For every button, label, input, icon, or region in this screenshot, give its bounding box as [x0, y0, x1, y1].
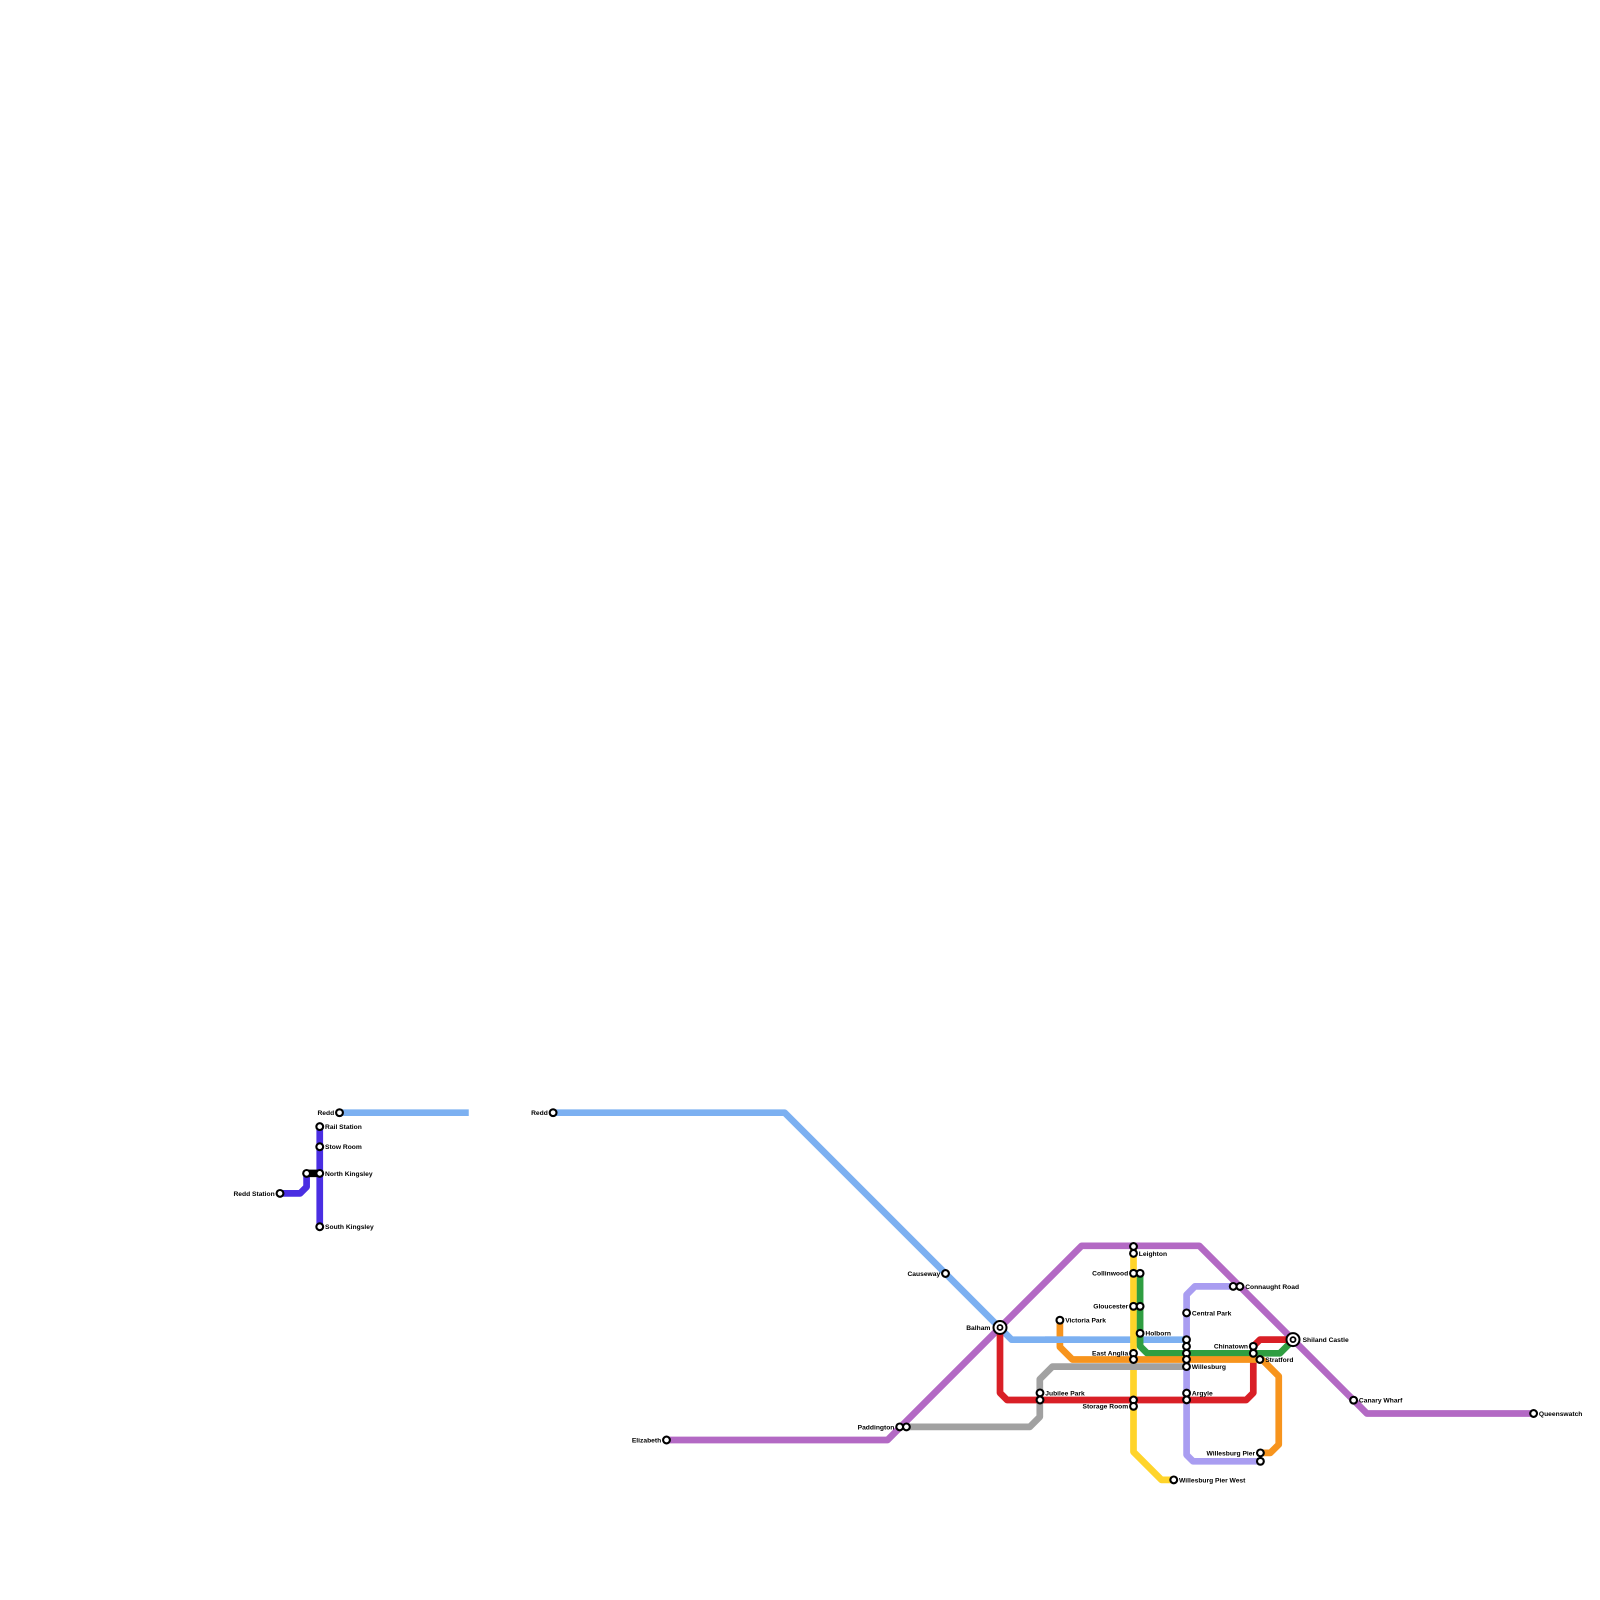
svg-text:Stratford: Stratford [1265, 1357, 1293, 1364]
station Willesburg stack 2 [1183, 1343, 1190, 1350]
svg-text:Willesburg Pier: Willesburg Pier [1206, 1450, 1255, 1457]
station Willesburg stack 4 [1183, 1356, 1190, 1363]
station Willesburg Pier top [1257, 1450, 1264, 1457]
station Redd Station [277, 1190, 284, 1197]
svg-text:Canary Wharf: Canary Wharf [1359, 1398, 1403, 1405]
purple line (Elizabeth - Queenswatch) [667, 1246, 1534, 1440]
station East Anglia top [1130, 1350, 1137, 1357]
station Collinwood east [1137, 1270, 1144, 1277]
station Rail Station [316, 1123, 323, 1130]
svg-text:Chinatown: Chinatown [1214, 1344, 1248, 1351]
interchange Balham [994, 1321, 1007, 1334]
svg-text:South Kingsley: South Kingsley [325, 1224, 374, 1231]
station Collinwood west [1130, 1270, 1137, 1277]
svg-text:Argyle: Argyle [1192, 1391, 1213, 1398]
svg-text:Connaught Road: Connaught Road [1245, 1284, 1299, 1291]
svg-text:Willesburg Pier West: Willesburg Pier West [1179, 1477, 1246, 1484]
gray line (Paddington - Willesburg) [906, 1367, 1186, 1427]
station Chinatown top [1250, 1343, 1257, 1350]
station Canary Wharf [1350, 1397, 1357, 1404]
indigo line main (Rail Station - South Kingsley) [316, 1127, 323, 1227]
red line (Balham - Shiland Castle) [1000, 1328, 1293, 1401]
svg-text:Causeway: Causeway [907, 1271, 940, 1278]
svg-text:Victoria Park: Victoria Park [1065, 1318, 1106, 1325]
svg-text:Leighton: Leighton [1139, 1251, 1167, 1258]
station South Kingsley [316, 1223, 323, 1230]
station Leighton bottom [1130, 1250, 1137, 1257]
svg-text:East Anglia: East Anglia [1092, 1351, 1128, 1358]
station Stratford [1257, 1356, 1264, 1363]
interchange Shiland Castle [1287, 1333, 1300, 1346]
station Central Park [1183, 1310, 1190, 1317]
green line (Collinwood - Shiland Castle) [1140, 1273, 1293, 1353]
station East Anglia bottom [1130, 1356, 1137, 1363]
station Leighton top [1130, 1243, 1137, 1250]
lavender line (Connaught Road - Willesburg Pier) [1187, 1286, 1261, 1461]
station Paddington east [903, 1424, 910, 1431]
station Stow Room [316, 1143, 323, 1150]
station Victoria Park [1057, 1317, 1064, 1324]
svg-text:Shiland Castle: Shiland Castle [1303, 1337, 1349, 1344]
yellow line (Leighton - Willesburg Pier West) [1134, 1247, 1174, 1480]
station Elizabeth [663, 1437, 670, 1444]
svg-text:Paddington: Paddington [858, 1424, 895, 1431]
station Connaught Road east [1237, 1283, 1244, 1290]
station Willesburg stack 1 [1183, 1336, 1190, 1343]
station North Kingsley west [303, 1170, 310, 1177]
station Connaught Road west [1230, 1283, 1237, 1290]
svg-text:Holborn: Holborn [1145, 1331, 1171, 1338]
light blue line A (Redd west stub) [340, 1109, 469, 1116]
station Willesburg Pier West [1170, 1477, 1177, 1484]
station Storage Room bottom [1130, 1403, 1137, 1410]
svg-text:Central Park: Central Park [1192, 1310, 1232, 1317]
station Redd B [550, 1109, 557, 1116]
svg-text:Gloucester: Gloucester [1093, 1304, 1128, 1311]
svg-text:Rail Station: Rail Station [325, 1124, 362, 1131]
svg-text:North Kingsley: North Kingsley [325, 1171, 373, 1178]
svg-text:Redd Station: Redd Station [233, 1191, 274, 1198]
svg-text:Collinwood: Collinwood [1092, 1271, 1128, 1278]
svg-text:Storage Room: Storage Room [1082, 1404, 1128, 1411]
station Chinatown bottom [1250, 1350, 1257, 1357]
station Willesburg stack 3 [1183, 1350, 1190, 1357]
station Storage Room top [1130, 1397, 1137, 1404]
station Causeway [942, 1270, 949, 1277]
svg-text:Redd: Redd [317, 1110, 334, 1117]
svg-text:Queenswatch: Queenswatch [1539, 1411, 1582, 1418]
svg-text:Willesburg: Willesburg [1192, 1364, 1226, 1371]
station North Kingsley east [316, 1170, 323, 1177]
svg-text:Jubilee Park: Jubilee Park [1045, 1390, 1085, 1397]
indigo line branch to Redd Station [280, 1173, 307, 1193]
North Kingsley interchange connector [307, 1170, 320, 1178]
light blue line B (Redd - Willesburg stack) [553, 1113, 1186, 1340]
station Willesburg stack 5 [1183, 1363, 1190, 1370]
svg-text:Redd: Redd [531, 1110, 548, 1117]
station Willesburg Pier bottom [1257, 1458, 1264, 1465]
station Holborn [1137, 1330, 1144, 1337]
station Paddington west [896, 1424, 903, 1431]
svg-text:Elizabeth: Elizabeth [632, 1437, 661, 1444]
station Argyle top [1183, 1390, 1190, 1397]
orange line (Victoria Park - Willesburg Pier) [1060, 1320, 1279, 1453]
station Queenswatch [1530, 1410, 1537, 1417]
svg-text:Stow Room: Stow Room [325, 1144, 362, 1151]
station Gloucester west [1130, 1303, 1137, 1310]
svg-text:Balham: Balham [966, 1325, 990, 1332]
station Jubilee Park bottom [1037, 1397, 1044, 1404]
station Argyle bottom [1183, 1397, 1190, 1404]
station Redd A [336, 1109, 343, 1116]
station Jubilee Park top [1037, 1390, 1044, 1397]
station Gloucester east [1137, 1303, 1144, 1310]
light blue overpass patch over orange [1045, 1336, 1080, 1343]
